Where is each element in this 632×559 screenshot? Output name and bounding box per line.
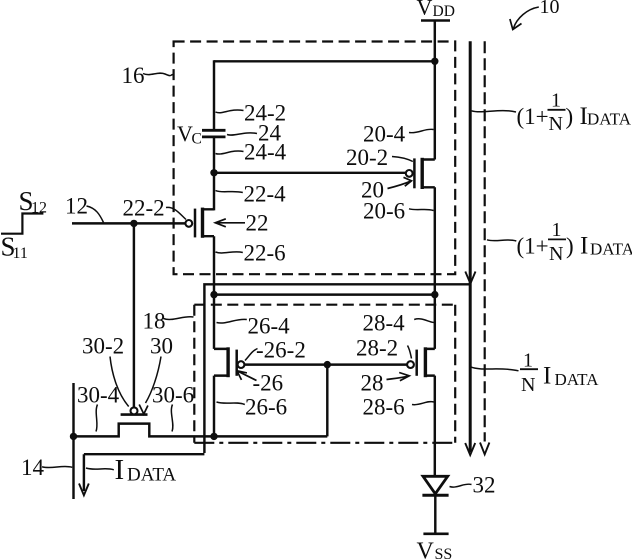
- svg-text:C: C: [192, 131, 202, 148]
- svg-text:DATA: DATA: [587, 110, 632, 129]
- svg-text:16: 16: [122, 63, 145, 88]
- svg-text:1: 1: [523, 350, 533, 372]
- svg-text:1: 1: [552, 219, 562, 241]
- svg-text:30-4: 30-4: [77, 383, 120, 408]
- svg-text:30-6: 30-6: [152, 383, 194, 408]
- svg-text:22-4: 22-4: [244, 182, 287, 207]
- svg-text:N: N: [521, 374, 535, 396]
- svg-text:28-4: 28-4: [363, 311, 406, 336]
- svg-text:I: I: [543, 363, 551, 390]
- svg-text:14: 14: [21, 455, 45, 480]
- svg-text:N: N: [549, 113, 563, 135]
- svg-text:22-6: 22-6: [244, 241, 286, 266]
- svg-text:1: 1: [551, 90, 561, 112]
- svg-text:(1+: (1+: [517, 104, 549, 129]
- svg-text:N: N: [549, 243, 563, 265]
- svg-text:26-6: 26-6: [245, 395, 287, 420]
- svg-text:20-6: 20-6: [363, 199, 405, 224]
- svg-text:12: 12: [31, 200, 47, 217]
- svg-text:12: 12: [65, 194, 88, 219]
- svg-text:(1+: (1+: [517, 234, 549, 259]
- svg-text:18: 18: [143, 309, 166, 334]
- svg-text:-26: -26: [253, 371, 284, 396]
- svg-text:DATA: DATA: [590, 240, 632, 259]
- svg-text:-26-2: -26-2: [256, 338, 306, 363]
- svg-text:28: 28: [361, 371, 384, 396]
- svg-text:24-4: 24-4: [244, 140, 287, 165]
- svg-text:V: V: [417, 539, 435, 559]
- svg-text:11: 11: [13, 245, 28, 262]
- svg-text:26-4: 26-4: [248, 314, 291, 339]
- svg-text:32: 32: [473, 473, 496, 498]
- svg-text:I: I: [115, 454, 125, 486]
- svg-text:): ): [566, 104, 574, 129]
- svg-text:22: 22: [246, 211, 269, 236]
- svg-text:30-2: 30-2: [82, 334, 124, 359]
- svg-text:): ): [566, 234, 574, 259]
- svg-text:V: V: [417, 0, 433, 20]
- svg-text:DATA: DATA: [555, 370, 600, 389]
- svg-text:DD: DD: [433, 3, 455, 20]
- svg-text:DATA: DATA: [127, 465, 176, 486]
- svg-text:30: 30: [150, 334, 173, 359]
- svg-text:22-2: 22-2: [123, 196, 165, 221]
- svg-text:20-4: 20-4: [363, 122, 406, 147]
- svg-text:28-2: 28-2: [356, 336, 398, 361]
- svg-text:20-2: 20-2: [346, 145, 388, 170]
- svg-text:28-6: 28-6: [363, 395, 405, 420]
- svg-text:10: 10: [540, 0, 560, 18]
- svg-text:I: I: [580, 233, 588, 260]
- svg-text:SS: SS: [435, 546, 453, 559]
